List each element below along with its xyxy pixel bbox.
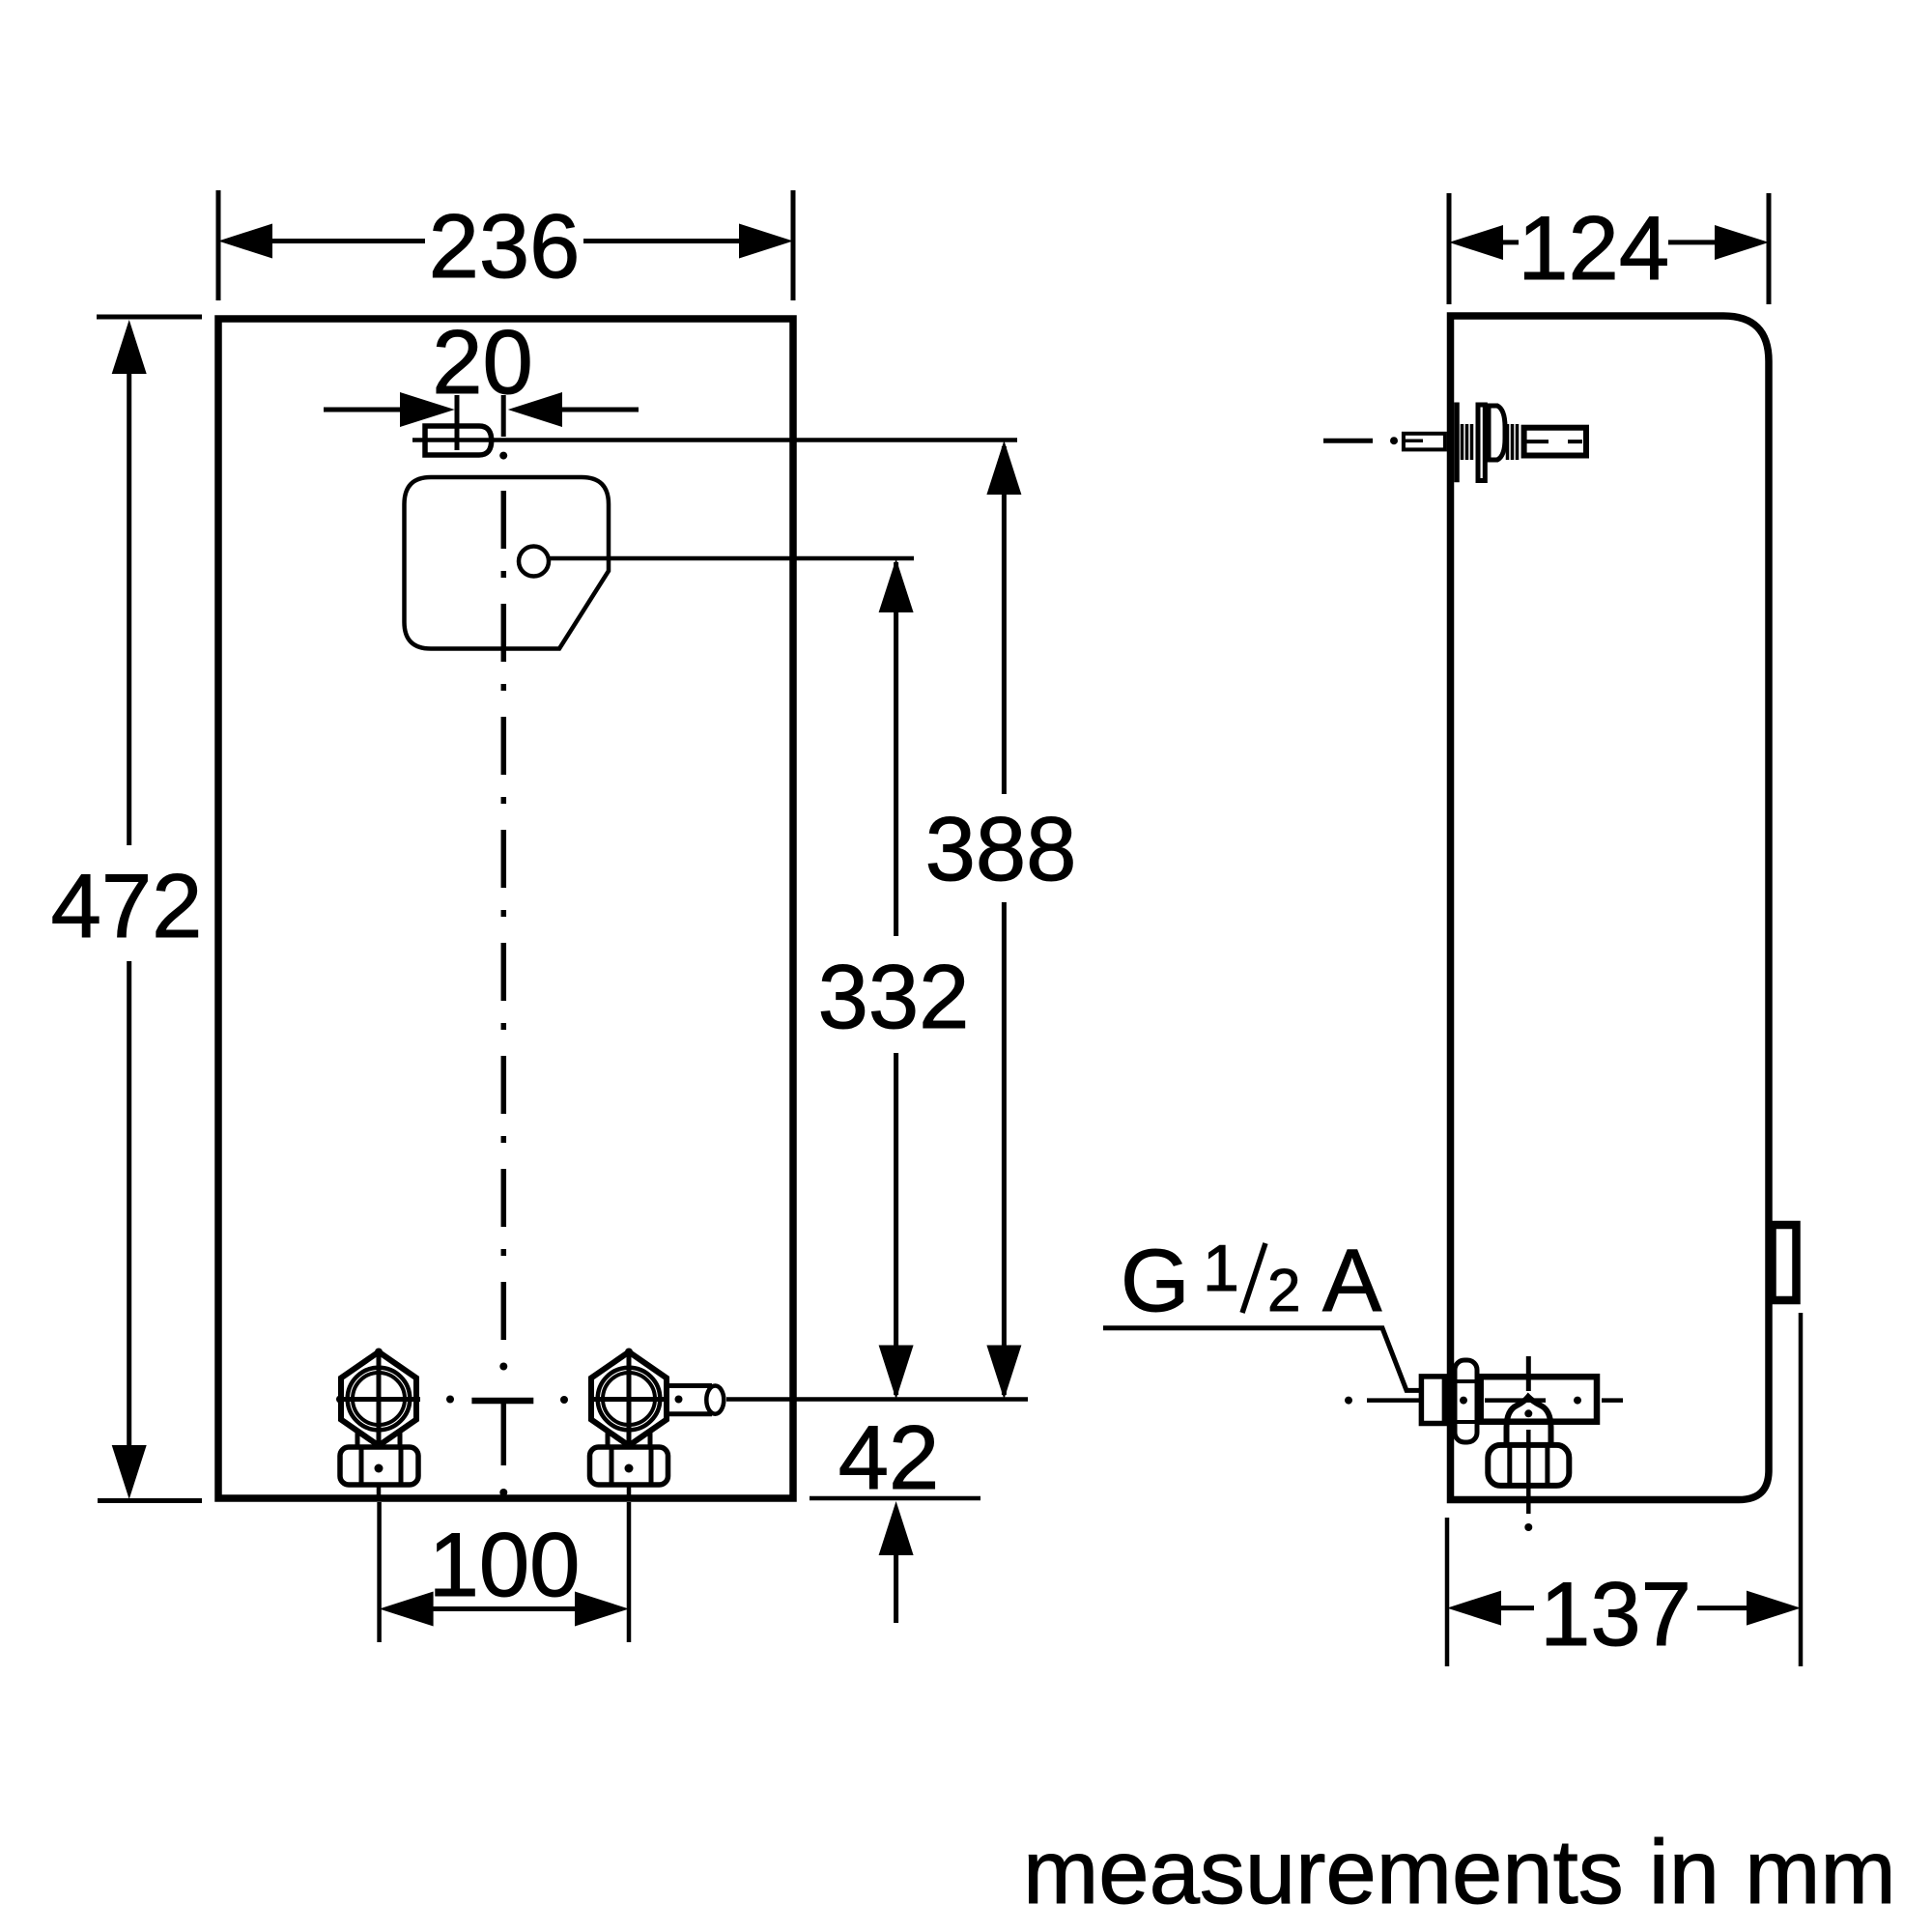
svg-text:2: 2 (1267, 1258, 1300, 1324)
472 dimension (97, 317, 202, 1501)
stud tick vertical (455, 395, 460, 450)
side stud nut (1489, 406, 1505, 460)
left valve vertical crosshair (377, 1352, 382, 1443)
svg-text:1: 1 (1203, 1232, 1239, 1305)
hole circle (519, 547, 549, 577)
side fitting nipple (1421, 1377, 1444, 1424)
side stud body dashes (1523, 440, 1582, 443)
side fitting washer capsule (1455, 1360, 1477, 1442)
left valve nut (340, 1447, 418, 1485)
svg-text:332: 332 (818, 946, 970, 1047)
124 dimension (1449, 193, 1769, 304)
left valve neck (357, 1433, 400, 1448)
left valve circles (348, 1368, 411, 1431)
front view body outline (218, 319, 793, 1498)
388 dimension (1002, 446, 1007, 1395)
side stud flange plate (1454, 403, 1460, 483)
side stud pin (1404, 434, 1445, 450)
236 dimension (218, 190, 793, 300)
right valve circles (598, 1368, 661, 1431)
right valve neck (608, 1433, 650, 1448)
svg-text:472: 472 (51, 855, 203, 956)
right valve nut (590, 1447, 668, 1485)
back bracket (1773, 1225, 1797, 1300)
right valve vertical crosshair (627, 1352, 632, 1443)
side stud axis dash-dot (1323, 439, 1373, 443)
svg-text:20: 20 (432, 311, 533, 412)
side fitting nut (1488, 1445, 1569, 1486)
svg-text:A: A (1322, 1232, 1382, 1330)
knockout square with chamfered corner (405, 477, 610, 649)
side view outline (1451, 316, 1770, 1500)
svg-text:42: 42 (838, 1406, 940, 1508)
right valve pipe stub (667, 1386, 712, 1414)
svg-text:236: 236 (429, 195, 581, 297)
centerline vertical dash-dot (501, 395, 506, 437)
right valve hexagon (591, 1352, 667, 1446)
stud axis ext line to 388 dim (412, 438, 1017, 442)
svg-text:137: 137 (1540, 1563, 1691, 1664)
valve axis dash-dot (336, 1396, 344, 1404)
stud fitting front (425, 426, 492, 455)
20 dimension (324, 408, 400, 412)
svg-text:G: G (1121, 1232, 1190, 1330)
side stud thread hatch 1 (1463, 424, 1472, 460)
left valve hexagon (341, 1352, 416, 1446)
side fitting pipe body (1481, 1377, 1597, 1422)
side stud thread hatch 2 (1508, 424, 1518, 460)
ext line hole to 332 dim (549, 556, 914, 561)
side stud washer (1478, 405, 1485, 481)
side stud body (1524, 428, 1586, 456)
side fitting vertical centerline (1526, 1356, 1531, 1391)
svg-text:124: 124 (1518, 197, 1669, 298)
bottom edge ext line right (810, 1496, 980, 1501)
centerline T crossbar (471, 1398, 533, 1405)
137 dimension (1447, 1313, 1801, 1666)
100 dimension (380, 1502, 629, 1642)
332 dimension (894, 562, 898, 1395)
valve axis ext line to 388/332 dims (736, 1397, 1028, 1402)
svg-text:388: 388 (925, 798, 1077, 899)
side fitting axis dash-dot (1345, 1397, 1352, 1405)
side fitting elbow bell (1507, 1397, 1551, 1445)
svg-text:measurements in mm: measurements in mm (1023, 1821, 1896, 1922)
svg-text:100: 100 (429, 1514, 581, 1615)
G label leader (1103, 1328, 1421, 1391)
